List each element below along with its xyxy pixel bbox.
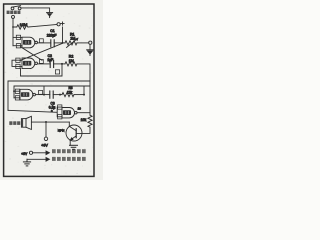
wire H2 gate3 output bus xyxy=(8,81,90,110)
plus sign xyxy=(61,22,64,25)
wire gate2 input to node A (diagonal) xyxy=(20,44,62,61)
resistor 10k vertical xyxy=(88,115,92,127)
wire R3 right xyxy=(74,94,84,96)
wire D1 output to C1 xyxy=(37,42,50,44)
node E xyxy=(83,94,85,96)
switch S (touch electrodes) xyxy=(11,6,21,10)
svg-text:10: 10 xyxy=(78,107,82,111)
pin box above D2 output xyxy=(39,60,43,64)
ground G3 xyxy=(23,159,30,166)
NAND gate D2 xyxy=(22,58,37,69)
svg-text:+9V: +9V xyxy=(21,152,28,156)
wire gate1 input to gate2 output (diagonal) xyxy=(21,47,42,61)
terminal + xyxy=(57,23,60,26)
gate D4 pin boxes xyxy=(58,105,62,109)
resistor 10M xyxy=(13,25,28,29)
label 至406页下图 xyxy=(52,157,86,161)
wire R1 to terminal xyxy=(77,42,89,44)
gate D3 label blob xyxy=(21,92,29,97)
svg-text:+9V: +9V xyxy=(41,143,48,147)
NAND gate D4 xyxy=(62,108,77,118)
wire electrode down to gate inputs xyxy=(12,18,14,45)
wire C2 to R2 xyxy=(54,63,65,65)
NAND gate D3 xyxy=(20,89,35,100)
capacitor C3 xyxy=(50,91,53,98)
wire R2 to right rail xyxy=(77,64,90,115)
wire speaker to collector xyxy=(31,121,69,123)
svg-text:R1: R1 xyxy=(70,32,75,36)
wire switch to arrow xyxy=(21,8,50,12)
pin box above D1 output xyxy=(39,39,43,43)
wire + node down to C1/R1 node xyxy=(62,27,64,43)
terminal arrow A2 xyxy=(87,44,94,55)
terminal arrow A1 xyxy=(47,13,53,18)
capacitor C2 xyxy=(50,60,53,67)
svg-text:R3: R3 xyxy=(69,86,73,90)
terminal +9V xyxy=(44,137,47,140)
svg-text:1M: 1M xyxy=(69,59,74,63)
svg-text:C1: C1 xyxy=(50,29,54,33)
pin box above D3 output xyxy=(39,90,43,94)
wire D4 output to rail xyxy=(77,112,90,114)
speaker BL xyxy=(21,116,31,129)
svg-text:NPN: NPN xyxy=(58,129,65,133)
label 至406页上图 xyxy=(52,149,86,153)
wire 10M to + terminal xyxy=(28,25,57,28)
resistor R2 1M xyxy=(65,62,77,66)
node F xyxy=(45,121,47,123)
capacitor C1 xyxy=(51,40,54,47)
gate D2 label blob xyxy=(23,61,31,66)
wire C3 to R3 xyxy=(53,94,62,96)
feedback wire H3 xyxy=(14,86,90,98)
bottom ground with arrow xyxy=(27,158,46,160)
svg-text:220µF: 220µF xyxy=(47,33,57,37)
transistor Q1 xyxy=(66,122,82,145)
gate D3 input stubs and pin boxes xyxy=(14,91,20,98)
gate D1 input stubs and pin boxes xyxy=(13,36,22,38)
node A xyxy=(62,42,64,44)
wire H4 to gate D4 xyxy=(8,107,62,117)
gate D2 input stubs and pin boxes xyxy=(12,60,22,66)
node C xyxy=(43,94,45,96)
svg-text:2M: 2M xyxy=(70,37,75,41)
svg-text:10k: 10k xyxy=(81,118,87,122)
node D xyxy=(59,94,61,96)
feedback wire H1 xyxy=(21,64,63,76)
potentiometer R1 2M xyxy=(65,38,78,47)
NAND gate D1 xyxy=(22,37,37,48)
svg-text:1µF: 1µF xyxy=(47,58,53,62)
gate D4 label blob xyxy=(63,110,71,115)
pin box on H1 xyxy=(55,70,59,74)
node at 10M tap xyxy=(12,26,14,28)
wire D2 output to C2 xyxy=(37,63,50,65)
svg-text:10M: 10M xyxy=(20,22,28,27)
wire 10k to base xyxy=(76,127,90,133)
electrode terminal xyxy=(12,15,15,18)
node B xyxy=(61,63,63,65)
wire D3 output to C3 xyxy=(35,94,49,96)
gate D1 label blob xyxy=(23,40,31,45)
label 触摸电极 xyxy=(7,11,21,14)
wire to +9V terminal xyxy=(45,122,47,137)
svg-text:R2: R2 xyxy=(69,55,74,59)
ground (emitter) xyxy=(70,145,78,149)
wire C1 to R1 xyxy=(54,42,65,44)
resistor R3 xyxy=(62,93,74,97)
svg-text:12k: 12k xyxy=(67,91,73,95)
label 扬声器 xyxy=(9,121,20,125)
terminal circle T3 xyxy=(89,41,92,44)
